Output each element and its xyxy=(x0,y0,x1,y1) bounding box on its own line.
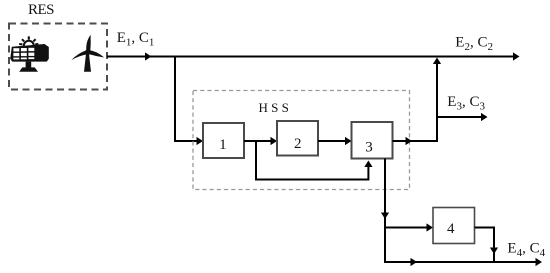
wire: drop from main line to block 1 xyxy=(175,56,198,142)
arrowhead mid bottom line xyxy=(411,258,418,266)
solar panel icon (stand) xyxy=(19,62,38,72)
RES dashed box xyxy=(9,24,107,90)
wire: block 2 to block 3 xyxy=(318,140,346,142)
svg-text:2: 2 xyxy=(294,136,302,152)
arrowhead into block 2 xyxy=(271,137,278,145)
svg-text:E4, C4: E4, C4 xyxy=(507,240,545,258)
block 2 xyxy=(277,121,318,156)
arrowhead down on block 4 output xyxy=(490,248,498,255)
arrowhead E4 output end xyxy=(536,258,543,266)
wire: block 1 to block 2 xyxy=(244,140,272,142)
svg-text:4: 4 xyxy=(447,221,455,237)
wire: riser up to main line xyxy=(436,61,438,142)
wire: bottom output line xyxy=(384,261,538,263)
arrowhead down on block 3 drop xyxy=(381,213,389,220)
wire: block 4 output down to bottom line xyxy=(475,228,495,263)
wire: main line RES to E2 output xyxy=(107,56,516,58)
arrowhead up into main line xyxy=(433,58,441,65)
svg-text:H S S: H S S xyxy=(259,100,289,115)
block 1 xyxy=(203,123,244,158)
arrowhead on main line near RES xyxy=(145,52,152,60)
arrowhead on block 3 output xyxy=(406,137,413,145)
svg-text:3: 3 xyxy=(365,140,373,156)
arrowhead E2 output xyxy=(513,52,520,60)
block 4 xyxy=(433,208,475,244)
svg-text:E3, C3: E3, C3 xyxy=(447,94,485,113)
arrowhead into block 1 xyxy=(197,137,204,145)
block 3 xyxy=(352,122,393,159)
wire: branch to block 4 xyxy=(385,227,428,229)
arrowhead E3 output xyxy=(481,113,488,121)
wire: block 3 down to bottom line xyxy=(384,159,386,263)
wire: feedback from node after block 1 to bottom of block 3 xyxy=(256,141,368,180)
wind turbine icon xyxy=(71,35,104,72)
arrowhead into block 3 xyxy=(345,137,352,145)
svg-text:RES: RES xyxy=(28,2,54,18)
svg-text:E1, C1: E1, C1 xyxy=(117,30,155,49)
svg-text:1: 1 xyxy=(219,137,227,153)
svg-text:E2, C2: E2, C2 xyxy=(455,35,493,54)
arrowhead into block 4 xyxy=(427,223,434,231)
HSS dashed box xyxy=(193,91,410,190)
solar panel icon (sun) xyxy=(19,36,38,50)
wire: E3 branch xyxy=(437,116,484,118)
solar panel icon (panel) xyxy=(10,44,49,62)
wire: block 3 output to riser xyxy=(393,140,438,142)
arrowhead up into block 3 bottom xyxy=(364,161,372,168)
